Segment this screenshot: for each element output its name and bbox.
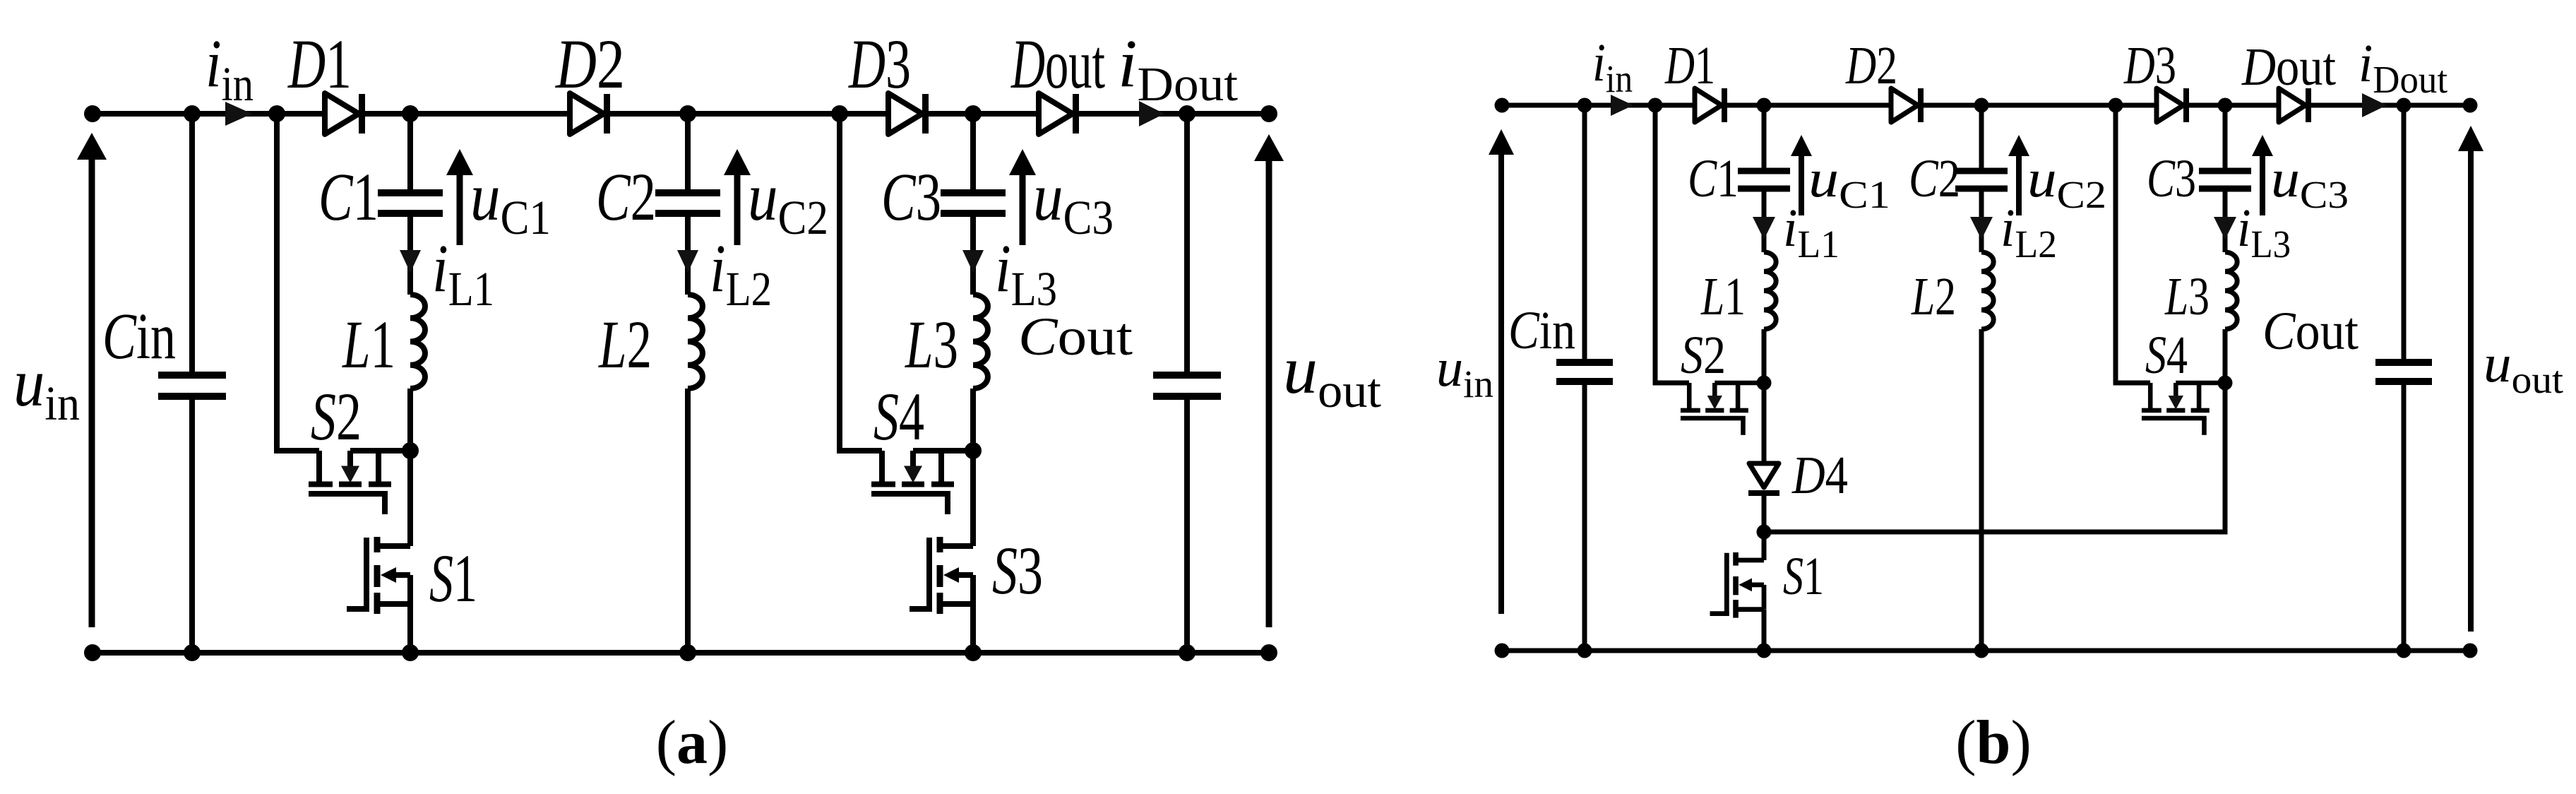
svg-text:S2: S2 (1681, 326, 1726, 385)
label i_Dout (a) (1118, 25, 1238, 111)
node B1 (a) (402, 105, 419, 122)
label Dout (b) (2241, 37, 2336, 97)
label L1 (a) (342, 307, 395, 382)
wire C1 top lead (a) (407, 114, 413, 191)
label u_out (b) (2483, 334, 2563, 401)
node B2 (b) (1974, 98, 1989, 113)
diode D2 (a) (570, 93, 610, 134)
wire S1-rail (b) (1762, 610, 1767, 651)
wire bottom rail (b) (1502, 648, 2470, 653)
label i_L3 (b) (2237, 198, 2291, 266)
capacitor Cout (a) (1153, 114, 1221, 653)
label S3 (a) (992, 533, 1043, 608)
wire C2 top lead (a) (685, 114, 691, 191)
node Cout bottom (b) (2397, 644, 2411, 658)
node B2 (a) (679, 105, 696, 122)
svg-text:Dout: Dout (1010, 25, 1105, 103)
svg-text:iin: iin (1592, 33, 1633, 100)
label S4 (b) (2145, 326, 2188, 385)
node output + (b) (2463, 98, 2478, 113)
svg-text:C3: C3 (2147, 149, 2196, 208)
svg-text:Cin: Cin (1508, 301, 1575, 360)
transistor S4 (b) (2142, 383, 2225, 435)
node input + (a) (84, 105, 101, 122)
label Dout (a) (1010, 25, 1105, 103)
label D3 (a) (848, 25, 911, 103)
label i_L1 (a) (432, 230, 494, 316)
node input + (b) (1495, 98, 1510, 113)
svg-text:S4: S4 (873, 379, 924, 454)
diode D1 (a) (325, 93, 365, 134)
capacitor C3 (b) (2199, 168, 2251, 192)
label i_L2 (a) (710, 230, 772, 316)
wire C3-L3 (b) (2223, 191, 2228, 253)
wire C2-L2 (a) (685, 216, 691, 295)
svg-text:D1: D1 (1664, 36, 1715, 95)
label S2 (a) (311, 379, 362, 454)
wire C1 top lead (b) (1762, 105, 1767, 169)
svg-text:D2: D2 (1845, 36, 1897, 95)
node S2 (a) (402, 442, 419, 459)
node input - (a) (84, 644, 101, 661)
label i_in (a) (205, 25, 254, 111)
wire C2-L2 (b) (1979, 191, 1984, 253)
label C2 (a) (596, 159, 656, 235)
transistor S2 (a) (309, 451, 410, 514)
node B3 (a) (965, 105, 982, 122)
svg-text:C2: C2 (1909, 149, 1960, 208)
node B3 (b) (2218, 98, 2233, 113)
node L2 bottom (b) (1974, 644, 1989, 658)
svg-text:L2: L2 (1911, 267, 1956, 326)
wire C3 top lead (a) (970, 114, 976, 191)
label i_L3 (a) (995, 230, 1057, 316)
svg-text:S4: S4 (2145, 326, 2188, 385)
wire C3 top lead (b) (2223, 105, 2228, 169)
label S1 (a) (429, 540, 477, 616)
label u_C1 (b) (1808, 149, 1890, 216)
label C1 (a) (318, 159, 378, 235)
wire L3-node (a) (970, 389, 976, 451)
svg-text:D3: D3 (2123, 36, 2176, 95)
node input - (b) (1495, 644, 1510, 658)
wire L1-node (b) (1762, 329, 1767, 383)
wire L2-rail (a) (685, 389, 691, 653)
svg-text:uC2: uC2 (748, 159, 828, 244)
capacitor Cin (b) (1556, 105, 1613, 651)
svg-text:S3: S3 (992, 533, 1043, 608)
node Cin top (a) (184, 105, 201, 122)
node S4 (b) (2218, 376, 2233, 391)
wire top rail (b) (1502, 103, 2470, 108)
svg-text:L1: L1 (1700, 267, 1746, 326)
label D1 (a) (287, 25, 352, 103)
svg-text:iL1: iL1 (432, 230, 494, 316)
label L3 (a) (905, 307, 958, 382)
svg-text:uC2: uC2 (2027, 149, 2106, 216)
capacitor C1 (a) (378, 189, 443, 217)
wire D4 to S4 leg (b) (1764, 383, 2225, 532)
node output - (a) (1260, 644, 1277, 661)
inductor L2 (b) (1981, 252, 1993, 329)
arrow i_L3 (a) (962, 250, 984, 273)
label D2 (a) (554, 25, 625, 103)
diode D1 (b) (1695, 88, 1727, 122)
wire C1-L1 (b) (1762, 191, 1767, 253)
capacitor Cin (a) (158, 114, 226, 653)
svg-text:iL3: iL3 (995, 230, 1057, 316)
wire C1-L1 (a) (407, 216, 413, 295)
svg-text:iL2: iL2 (2000, 198, 2057, 266)
diode D3 (a) (888, 93, 929, 134)
arrow i_L1 (b) (1753, 217, 1775, 239)
capacitor C2 (a) (655, 189, 720, 217)
svg-text:(a): (a) (656, 709, 729, 777)
caption (b) (1955, 709, 2032, 777)
svg-text:Cin: Cin (102, 300, 176, 373)
inductor L1 (b) (1764, 252, 1776, 329)
label S2 (b) (1681, 326, 1726, 385)
svg-text:D1: D1 (287, 25, 352, 103)
wire L3-node (b) (2223, 329, 2228, 383)
wire C2 top lead (b) (1979, 105, 1984, 169)
node A1 (b) (1648, 98, 1663, 113)
arrow i_L2 (b) (1970, 217, 1993, 239)
label i_Dout (b) (2359, 34, 2447, 101)
svg-text:L3: L3 (905, 307, 958, 382)
diode D4 (b) (1748, 463, 1779, 496)
node Cin top (b) (1578, 98, 1592, 113)
svg-text:iin: iin (205, 25, 254, 111)
arrow i_L1 (a) (400, 250, 421, 273)
node Cout top (a) (1179, 105, 1195, 122)
svg-text:C1: C1 (1688, 149, 1739, 208)
transistor S1 (b) (1710, 532, 1765, 618)
svg-text:uC3: uC3 (1033, 159, 1114, 244)
label C3 (b) (2147, 149, 2196, 208)
label i_L2 (b) (2000, 198, 2057, 266)
label i_L1 (b) (1783, 198, 1839, 266)
wire S2 branch (a) (277, 114, 319, 451)
svg-text:iDout: iDout (2359, 34, 2447, 101)
arrow i_L3 (b) (2214, 217, 2236, 239)
transistor S3 (a) (910, 537, 973, 614)
wire L1-node (a) (407, 389, 413, 451)
arrow u_C3 (b) (2252, 135, 2273, 215)
label i_in (b) (1592, 33, 1633, 100)
node B1 (b) (1757, 98, 1772, 113)
node L2 bottom (a) (679, 644, 696, 661)
label C3 (a) (881, 159, 941, 235)
label u_C2 (a) (748, 159, 828, 244)
label u_in (a) (13, 345, 80, 430)
arrow u_C1 (b) (1791, 135, 1812, 215)
svg-text:C3: C3 (881, 159, 941, 235)
node A1 (a) (268, 105, 285, 122)
diode D3 (b) (2157, 88, 2189, 122)
inductor L3 (b) (2225, 252, 2237, 329)
label Cin (a) (102, 300, 176, 373)
label S1 (b) (1783, 547, 1824, 606)
node Cout top (b) (2397, 98, 2411, 113)
svg-text:L1: L1 (342, 307, 395, 382)
label u_C1 (a) (470, 159, 551, 244)
label u_C2 (b) (2027, 149, 2106, 216)
wire S4 branch (a) (840, 114, 882, 451)
svg-text:uC3: uC3 (2271, 149, 2349, 216)
svg-text:Cout: Cout (1018, 307, 1133, 367)
wire S4 branch (b) (2116, 105, 2150, 383)
svg-text:L2: L2 (598, 307, 652, 382)
wire S3-rail (a) (970, 604, 976, 653)
transistor S1 (a) (347, 537, 410, 614)
arrow u_C3 (a) (1009, 149, 1036, 245)
label D4 (b) (1791, 446, 1848, 505)
wire C3-L3 (a) (970, 216, 976, 295)
svg-text:C1: C1 (318, 159, 378, 235)
node A3 (b) (2109, 98, 2123, 113)
arrow u_C1 (a) (446, 149, 473, 245)
svg-text:uout: uout (2483, 334, 2563, 401)
arrow u_C2 (a) (724, 149, 751, 245)
svg-text:S1: S1 (429, 540, 477, 616)
label C1 (b) (1688, 149, 1739, 208)
wire S1-rail (a) (407, 604, 413, 653)
diode D2 (b) (1891, 88, 1924, 122)
arrow u_C2 (b) (2008, 135, 2029, 215)
node Cin bottom (a) (184, 644, 201, 661)
svg-text:iL2: iL2 (710, 230, 772, 316)
label Cout (a) (1018, 307, 1133, 367)
svg-text:Dout: Dout (2241, 37, 2336, 97)
svg-text:uin: uin (1436, 338, 1493, 405)
svg-text:uout: uout (1283, 332, 1381, 417)
arrow u_in (b) (1489, 129, 1514, 614)
svg-text:uC1: uC1 (470, 159, 551, 244)
node S2 (b) (1757, 376, 1772, 391)
diode Dout (a) (1039, 93, 1079, 134)
inductor L1 (a) (410, 295, 425, 389)
svg-text:S2: S2 (311, 379, 362, 454)
svg-text:Cout: Cout (2262, 302, 2359, 361)
svg-text:iL1: iL1 (1783, 198, 1839, 266)
svg-text:L3: L3 (2164, 267, 2210, 326)
wire S2 branch (b) (1655, 105, 1689, 383)
node D4 bottom (b) (1757, 525, 1772, 540)
label L2 (b) (1911, 267, 1956, 326)
caption (a) (656, 709, 729, 777)
arrow i_in (b) (1611, 95, 1633, 116)
inductor L3 (a) (973, 295, 988, 389)
arrow i_L2 (a) (677, 250, 698, 273)
svg-text:iDout: iDout (1118, 25, 1238, 111)
capacitor Cout (b) (2375, 105, 2432, 651)
arrow u_out (b) (2458, 126, 2483, 632)
svg-text:uC1: uC1 (1808, 149, 1890, 216)
svg-text:(b): (b) (1955, 709, 2032, 777)
wire node-S3 (a) (970, 451, 976, 546)
label D1 (b) (1664, 36, 1715, 95)
diode Dout (b) (2279, 88, 2311, 122)
wire top rail (a) (93, 111, 1269, 117)
svg-text:D3: D3 (848, 25, 911, 103)
node output - (b) (2463, 644, 2478, 658)
node S1 bottom (a) (402, 644, 419, 661)
label u_in (b) (1436, 338, 1493, 405)
transistor S4 (a) (871, 451, 973, 514)
node S1 bottom (b) (1757, 644, 1772, 658)
node A3 (a) (831, 105, 848, 122)
transistor S2 (b) (1681, 383, 1764, 435)
label S4 (a) (873, 379, 924, 454)
wire bottom rail (a) (93, 650, 1269, 656)
svg-text:D2: D2 (554, 25, 625, 103)
label u_out (a) (1283, 332, 1381, 417)
arrow i_Dout (a) (1139, 101, 1164, 126)
label L1 (b) (1700, 267, 1746, 326)
label D3 (b) (2123, 36, 2176, 95)
svg-text:S1: S1 (1783, 547, 1824, 606)
node Cout bottom (a) (1179, 644, 1195, 661)
wire node-S1 (a) (407, 451, 413, 546)
arrow i_in (a) (225, 102, 252, 126)
label Cout (b) (2262, 302, 2359, 361)
node S4 (a) (965, 442, 982, 459)
arrow u_in (a) (77, 133, 107, 627)
label C2 (b) (1909, 149, 1960, 208)
capacitor C3 (a) (941, 189, 1006, 217)
label L3 (b) (2164, 267, 2210, 326)
wire D4-node (b) (1762, 493, 1767, 532)
wire node-D4 (b) (1762, 383, 1767, 463)
label D2 (b) (1845, 36, 1897, 95)
svg-text:C2: C2 (596, 159, 656, 235)
node output + (a) (1260, 105, 1277, 122)
capacitor C2 (b) (1955, 168, 2008, 192)
inductor L2 (a) (688, 295, 703, 389)
label u_C3 (b) (2271, 149, 2349, 216)
wire L2-rail (b) (1979, 329, 1984, 651)
label L2 (a) (598, 307, 652, 382)
label Cin (b) (1508, 301, 1575, 360)
node Cin bottom (b) (1578, 644, 1592, 658)
label u_C3 (a) (1033, 159, 1114, 244)
node S3 bottom (a) (965, 644, 982, 661)
svg-text:uin: uin (13, 345, 80, 430)
arrow u_out (a) (1254, 134, 1284, 627)
arrow i_Dout (b) (2362, 93, 2387, 117)
capacitor C1 (b) (1738, 168, 1790, 192)
svg-text:D4: D4 (1791, 446, 1848, 505)
